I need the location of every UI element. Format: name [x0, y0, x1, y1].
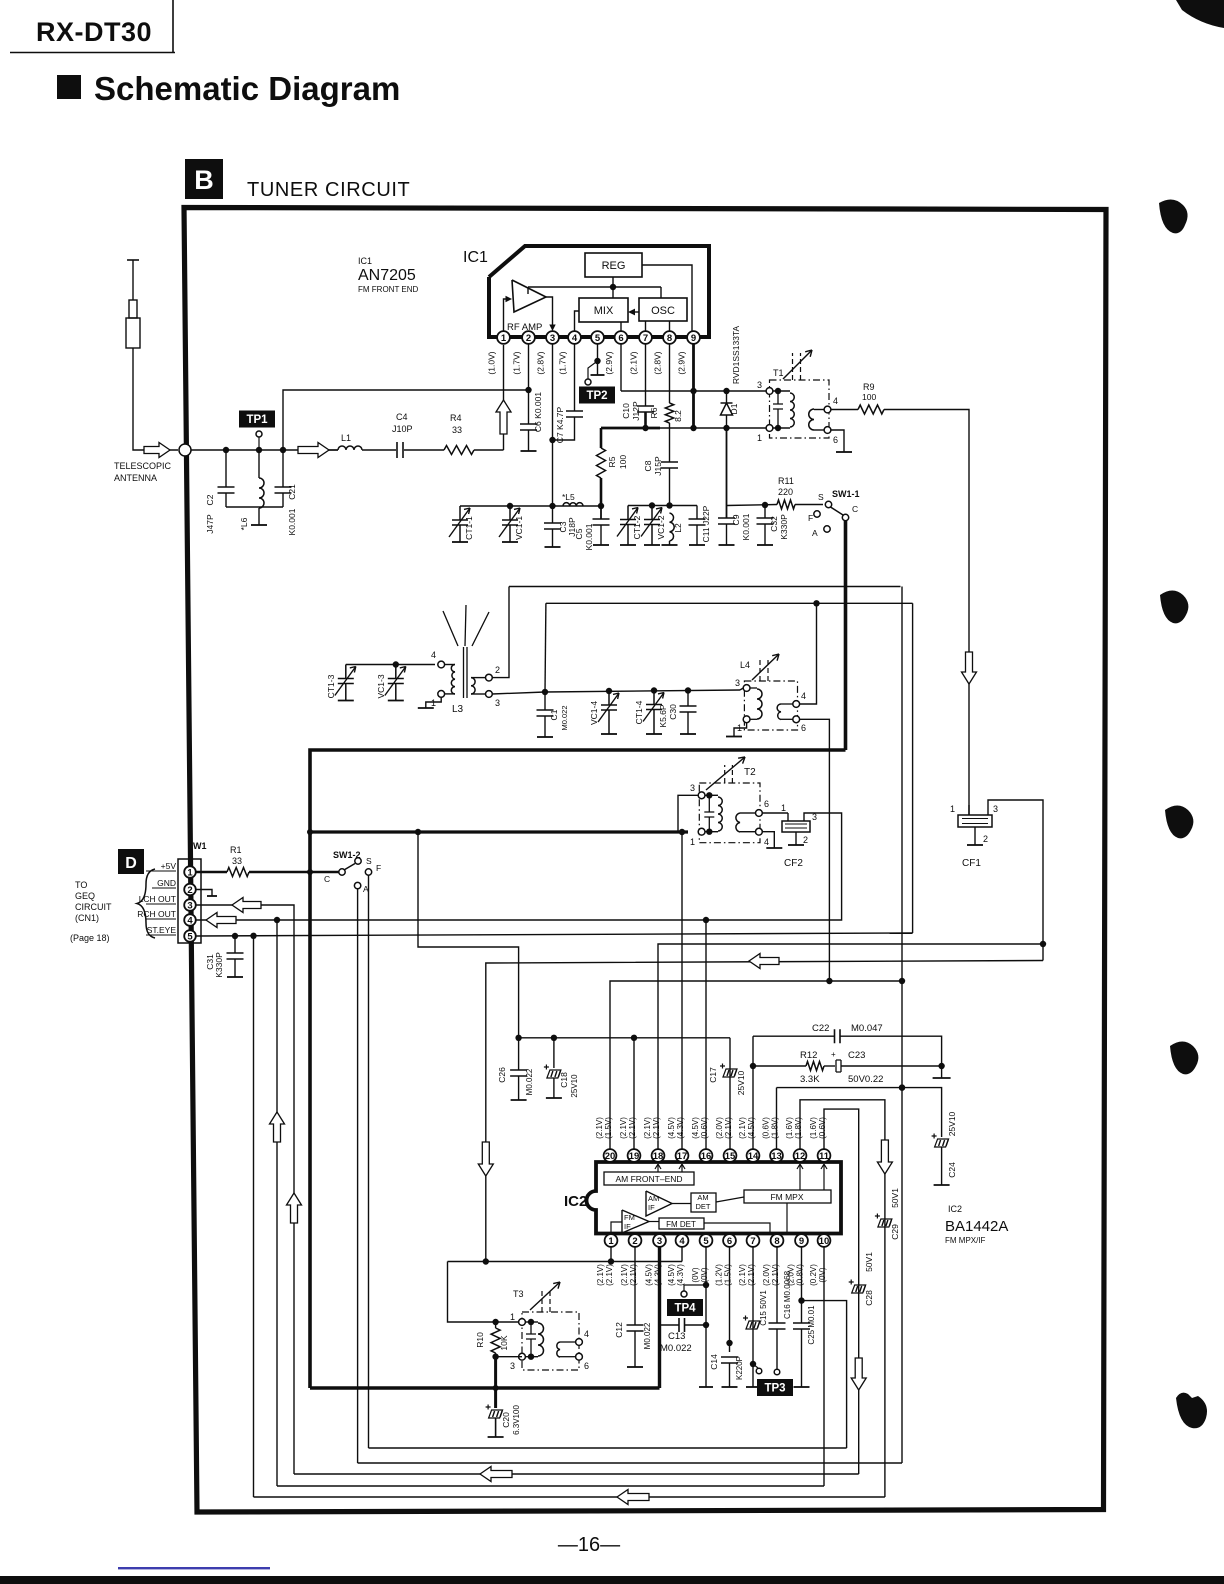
- svg-text:(1.6V): (1.6V): [809, 1117, 818, 1139]
- T3 pin 6: [576, 1353, 583, 1360]
- svg-text:(2.1V): (2.1V): [738, 1264, 747, 1286]
- wire R9 to CF1: [884, 410, 969, 816]
- svg-text:D1: D1: [729, 403, 739, 414]
- svg-text:M0.022: M0.022: [525, 1068, 534, 1095]
- thick ground bus bottom: [310, 1386, 660, 1389]
- wire pin20 riser: [610, 981, 902, 1149]
- svg-text:AM: AM: [697, 1193, 708, 1202]
- svg-text:CT1-3: CT1-3: [326, 674, 336, 698]
- wire CT1-3 row: [346, 664, 435, 666]
- svg-text:C7 K4.7P: C7 K4.7P: [555, 406, 565, 443]
- svg-text:20: 20: [605, 1151, 616, 1162]
- svg-text:AM: AM: [648, 1194, 659, 1203]
- capacitor C22 M0.047: [753, 1035, 834, 1037]
- wire pin 8 to R6: [669, 344, 671, 403]
- svg-text:(4.5V): (4.5V): [667, 1117, 676, 1139]
- svg-text:CT1-1: CT1-1: [464, 516, 474, 540]
- svg-text:3: 3: [812, 812, 817, 822]
- svg-text:L1: L1: [341, 433, 351, 443]
- L4 pin 3: [743, 685, 750, 692]
- svg-text:1: 1: [501, 333, 507, 344]
- svg-text:TELESCOPIC: TELESCOPIC: [114, 461, 172, 471]
- svg-text:(2.1V): (2.1V): [643, 1117, 652, 1139]
- svg-text:LCH OUT: LCH OUT: [139, 894, 176, 904]
- binding hole mark 2: [1160, 591, 1188, 624]
- svg-text:J47P: J47P: [205, 514, 215, 534]
- svg-text:J10P: J10P: [392, 424, 413, 434]
- svg-text:25V10: 25V10: [947, 1111, 957, 1136]
- REG box: [585, 253, 642, 277]
- svg-text:5: 5: [595, 333, 601, 344]
- svg-text:(0V): (0V): [700, 1267, 709, 1282]
- svg-text:6.3V100: 6.3V100: [512, 1405, 521, 1435]
- capacitor C1 M0.022: [544, 692, 546, 710]
- wire IF input line to IC2 pin 1: [448, 1261, 683, 1263]
- capacitor C3 J18P: [552, 506, 554, 523]
- svg-text:GND: GND: [157, 878, 176, 888]
- T1 secondary coil: [809, 409, 814, 430]
- svg-text:(2.1V): (2.1V): [747, 1264, 756, 1286]
- svg-text:3: 3: [510, 1361, 515, 1371]
- capacitor C21 K0.001: [282, 450, 284, 487]
- svg-text:TP1: TP1: [246, 414, 268, 426]
- svg-text:C15 50V1: C15 50V1: [759, 1290, 768, 1326]
- test point TP3: [750, 1361, 756, 1367]
- svg-text:CT1-2: CT1-2: [632, 515, 642, 539]
- svg-text:F: F: [376, 863, 381, 873]
- svg-text:220: 220: [778, 487, 793, 497]
- wire pin 1 to RF amp input: [504, 299, 509, 331]
- svg-text:C1: C1: [549, 709, 559, 720]
- FM DET box: [659, 1218, 704, 1229]
- svg-text:6: 6: [764, 799, 769, 809]
- svg-text:VC1-4: VC1-4: [589, 701, 599, 725]
- svg-text:6: 6: [833, 435, 838, 445]
- svg-text:C11 J22P: C11 J22P: [701, 505, 711, 542]
- line pin13 to C24: [777, 1088, 942, 1137]
- svg-text:Schematic Diagram: Schematic Diagram: [94, 70, 400, 107]
- svg-text:C23: C23: [848, 1050, 865, 1061]
- AM long vertical: [901, 587, 903, 1464]
- svg-text:CT1-4: CT1-4: [634, 700, 644, 724]
- wire D5 ST.EYE line: [196, 933, 913, 936]
- svg-text:1: 1: [950, 804, 955, 814]
- T2 pin 1: [698, 828, 705, 835]
- svg-text:2: 2: [632, 1236, 637, 1247]
- L4 pin 4: [793, 701, 800, 708]
- svg-text:T1: T1: [773, 368, 784, 378]
- svg-text:C14: C14: [709, 1354, 719, 1370]
- IC2 bottom pins 1-10: [605, 1234, 618, 1247]
- wire T1 pin6 to ground: [831, 430, 844, 452]
- svg-text:(2.1V): (2.1V): [629, 351, 639, 374]
- capacitor C6 K0.001: [520, 424, 537, 430]
- svg-text:2: 2: [187, 885, 192, 896]
- svg-text:4: 4: [679, 1236, 685, 1247]
- svg-text:(2.0V): (2.0V): [715, 1117, 724, 1139]
- capacitor C26 M0.022: [518, 1038, 520, 1070]
- svg-text:K0.001: K0.001: [584, 523, 594, 550]
- T2 pin 6: [756, 810, 763, 817]
- main schematic border: [184, 208, 1106, 1513]
- svg-text:(2.1V): (2.1V): [619, 1117, 628, 1139]
- svg-text:(2.1V): (2.1V): [595, 1117, 604, 1139]
- variable capacitor VC1-2: [641, 506, 662, 546]
- capacitor C24 25V10 electrolytic: [935, 1139, 949, 1147]
- T2 pin 4: [756, 828, 763, 835]
- wire L3 pin1 to ground: [426, 697, 441, 708]
- T3 secondary coil: [557, 1342, 560, 1357]
- arrow OSC to MIX: [630, 311, 639, 313]
- svg-text:4: 4: [572, 333, 578, 344]
- svg-text:R11: R11: [778, 476, 794, 486]
- wire C26 riser to T2 bus: [418, 832, 519, 1038]
- svg-text:(2.1V): (2.1V): [652, 1117, 661, 1139]
- svg-text:L2: L2: [673, 523, 683, 533]
- T1 primary coil: [770, 390, 791, 392]
- svg-text:4: 4: [833, 396, 838, 406]
- return line 3: [294, 1473, 859, 1475]
- svg-text:M0.047: M0.047: [851, 1023, 883, 1034]
- AM IF triangle: [646, 1191, 672, 1216]
- wire pin7 to C15: [752, 1247, 754, 1387]
- svg-text:(2.9V): (2.9V): [677, 351, 687, 374]
- svg-text:4: 4: [801, 691, 806, 701]
- svg-text:R6: R6: [649, 407, 659, 418]
- inductor L1: [329, 449, 338, 451]
- svg-text:100: 100: [862, 392, 876, 402]
- test point TP2: [579, 387, 615, 404]
- wire internal supply rail: [528, 286, 661, 288]
- svg-text:C13: C13: [668, 1331, 685, 1342]
- svg-text:C25 M0.01: C25 M0.01: [807, 1305, 816, 1345]
- svg-text:(Page 18): (Page 18): [70, 933, 110, 943]
- arrow down on feedback drop: [478, 1142, 493, 1176]
- resistor R11 220: [777, 500, 795, 509]
- capacitor C25 M0.01: [793, 1323, 810, 1329]
- svg-text:R9: R9: [863, 382, 875, 392]
- capacitor C30 K5.6P: [687, 691, 689, 707]
- antenna junction node: [179, 444, 191, 456]
- telescopic antenna: [127, 259, 139, 261]
- svg-text:4: 4: [187, 915, 193, 926]
- svg-text:ANTENNA: ANTENNA: [114, 473, 157, 483]
- inductor L2: [670, 513, 675, 541]
- connector W1 box: [178, 859, 201, 943]
- svg-text:C16 M0.0068: C16 M0.0068: [783, 1270, 792, 1319]
- svg-text:S: S: [818, 492, 824, 502]
- svg-text:(2.1V): (2.1V): [620, 1264, 629, 1286]
- capacitor C16 M0.0068: [769, 1323, 786, 1329]
- connector D pin 5: [184, 930, 196, 942]
- wire SW1-1 C contact down thick: [844, 521, 848, 750]
- transformer T2 dashed box: [699, 783, 760, 843]
- svg-text:C24: C24: [947, 1162, 957, 1178]
- T3 primary coil: [525, 1321, 538, 1323]
- svg-text:FM FRONT END: FM FRONT END: [358, 285, 419, 294]
- svg-text:CF1: CF1: [962, 858, 981, 869]
- wire pin10 drop: [823, 1247, 825, 1486]
- wire pin18 riser: [658, 944, 1043, 1149]
- wire RF amp out to pin 3: [546, 297, 553, 326]
- row wire C9 to R11: [727, 505, 778, 506]
- arrow down to CF1: [962, 652, 977, 684]
- svg-text:3: 3: [757, 380, 762, 390]
- svg-text:AM FRONT–END: AM FRONT–END: [615, 1174, 682, 1184]
- T1 tuning arrow: [793, 353, 801, 380]
- svg-text:(0.8V): (0.8V): [796, 1264, 805, 1286]
- svg-text:TUNER CIRCUIT: TUNER CIRCUIT: [247, 179, 410, 201]
- svg-text:4: 4: [764, 837, 769, 847]
- row wire CT1-2 to C11: [628, 505, 697, 507]
- svg-text:11: 11: [819, 1151, 830, 1162]
- binding hole mark 3: [1165, 806, 1193, 839]
- wire pin 2 to C6: [528, 344, 530, 424]
- svg-text:6: 6: [618, 333, 623, 344]
- svg-text:C9: C9: [731, 514, 741, 525]
- wire OSC to pin 8: [669, 321, 671, 331]
- return line 1: [369, 1447, 847, 1449]
- svg-text:5: 5: [187, 931, 193, 942]
- svg-text:(4.3V): (4.3V): [676, 1117, 685, 1139]
- CF1 pin2 ground: [974, 827, 976, 845]
- FM MPX box: [744, 1190, 831, 1203]
- svg-text:C21: C21: [287, 484, 297, 500]
- svg-text:3: 3: [550, 333, 555, 344]
- wire ST.EYE riser at right: [912, 603, 914, 933]
- IC2 BA1442A outline: [587, 1162, 842, 1234]
- svg-text:25V10: 25V10: [570, 1074, 579, 1098]
- svg-text:(2.9V): (2.9V): [604, 351, 614, 374]
- transformer T1 dashed box: [770, 380, 830, 438]
- rail R5 to T1 pin1 y428: [601, 427, 660, 430]
- inductor L6: [258, 450, 260, 478]
- capacitor C28 50V1 electrolytic: [852, 1285, 866, 1293]
- RF AMP triangle: [512, 280, 546, 312]
- svg-text:8: 8: [774, 1236, 779, 1247]
- wire CF1 long feedback to IC2 area: [486, 961, 1043, 1262]
- svg-text:RVD1SS133TA: RVD1SS133TA: [731, 326, 741, 385]
- capacitor C29 50V1 electrolytic: [878, 1219, 892, 1227]
- ceramic filter CF2: [762, 812, 788, 814]
- thick bus T2 feed: [310, 830, 688, 833]
- svg-text:C: C: [324, 874, 330, 884]
- svg-text:1: 1: [757, 433, 762, 443]
- svg-text:(1.5V): (1.5V): [724, 1264, 733, 1286]
- wire T3 pin3 to R10: [496, 1356, 522, 1358]
- svg-text:(1.5V): (1.5V): [604, 1117, 613, 1139]
- svg-text:A: A: [812, 528, 818, 538]
- svg-text:BA1442A: BA1442A: [945, 1218, 1008, 1235]
- wire pin 5 to TP2: [597, 344, 599, 375]
- T2 secondary coil: [736, 813, 740, 832]
- svg-text:MIX: MIX: [594, 305, 614, 317]
- svg-text:R12: R12: [800, 1050, 817, 1061]
- svg-text:K0.001: K0.001: [287, 508, 297, 535]
- svg-text:ST.EYE: ST.EYE: [147, 925, 177, 935]
- svg-text:—16—: —16—: [558, 1534, 620, 1556]
- wire +5V line with R1: [196, 871, 227, 874]
- arrow on return line 3: [480, 1467, 512, 1482]
- svg-text:IC1: IC1: [358, 256, 372, 266]
- wire pin19 riser: [633, 1038, 635, 1149]
- MIX box: [579, 298, 628, 322]
- wire MIX to pin 6: [620, 322, 622, 331]
- svg-text:1: 1: [781, 803, 786, 813]
- svg-text:8.2: 8.2: [673, 410, 683, 422]
- wire L4 pin1 ground: [734, 723, 747, 736]
- CF2 pin3 riser: [706, 813, 842, 920]
- svg-text:1: 1: [510, 1312, 515, 1322]
- svg-text:(2.1V): (2.1V): [724, 1117, 733, 1139]
- inductor L5: [563, 503, 583, 506]
- svg-text:VC1-2: VC1-2: [656, 515, 666, 539]
- capacitor C15 50V1 electrolytic: [746, 1321, 760, 1329]
- capacitor C17 25V10 electrolytic: [723, 1069, 737, 1077]
- wire pin 3 down: [552, 344, 554, 506]
- svg-text:C10: C10: [621, 403, 631, 419]
- svg-text:17: 17: [677, 1151, 688, 1162]
- T2 tuning arrow: [725, 765, 733, 783]
- wire TP1 node up to C6 rail: [283, 390, 529, 450]
- svg-text:3: 3: [495, 698, 500, 708]
- resistor R12 3.3K with C23: [753, 1065, 806, 1067]
- wire pin2 to C12: [634, 1247, 636, 1325]
- test point TP1: [239, 411, 275, 428]
- line C26 C18 C17 common: [519, 1037, 730, 1039]
- svg-text:(0.6V): (0.6V): [818, 1117, 827, 1139]
- svg-text:VC1-1: VC1-1: [514, 516, 524, 540]
- svg-text:33: 33: [232, 856, 242, 866]
- svg-text:C32: C32: [769, 516, 779, 532]
- rail IC1 output y391: [621, 390, 770, 392]
- return line 4: [277, 1485, 824, 1487]
- wire pin9 branch to bottom loop: [802, 1301, 847, 1448]
- capacitor C32 K330P: [764, 505, 766, 518]
- T1 pin 3: [766, 388, 773, 395]
- svg-text:(1.8V): (1.8V): [794, 1117, 803, 1139]
- svg-text:+5V: +5V: [161, 861, 177, 871]
- capacitor C8 J15P: [661, 462, 678, 468]
- T3 tuning arrow: [542, 1288, 550, 1312]
- trimmer capacitor CT1-2: [617, 506, 638, 546]
- T3 pin 4: [576, 1339, 583, 1346]
- wire CF1 pin3 riser: [988, 800, 1043, 961]
- svg-text:C28: C28: [864, 1290, 874, 1306]
- arrow on LCH line: [232, 898, 261, 913]
- wire antenna node to L1: [191, 449, 338, 451]
- svg-text:(2.8V): (2.8V): [536, 351, 546, 374]
- wire L4 pin3 from row: [740, 688, 743, 690]
- capacitor C10 J12P: [637, 406, 654, 412]
- svg-text:GEQ: GEQ: [75, 891, 95, 901]
- arrow on antenna wire: [298, 443, 329, 458]
- svg-text:2: 2: [495, 665, 500, 675]
- svg-text:C8: C8: [643, 460, 653, 471]
- wire pin8 to C16: [776, 1247, 778, 1323]
- arrow up on RCH drop: [270, 1112, 285, 1142]
- svg-text:B: B: [194, 165, 214, 195]
- svg-text:CF2: CF2: [784, 858, 803, 869]
- svg-text:(2.1V): (2.1V): [605, 1264, 614, 1286]
- T2 pin 3: [698, 792, 705, 799]
- binding hole mark 5: [1176, 1393, 1207, 1429]
- capacitor C13 M0.022: [660, 1324, 680, 1326]
- svg-text:33: 33: [452, 425, 462, 435]
- wire REG to MIX: [612, 277, 614, 298]
- svg-text:T2: T2: [744, 767, 756, 778]
- wire L4 pin4 riser: [800, 603, 817, 704]
- svg-text:M0.022: M0.022: [643, 1322, 652, 1349]
- L4 primary coil: [750, 687, 757, 689]
- svg-text:3: 3: [690, 783, 695, 793]
- svg-text:13: 13: [771, 1151, 782, 1162]
- row wire CT1-1 to R5: [460, 505, 601, 507]
- svg-text:C17: C17: [708, 1067, 718, 1083]
- svg-text:FM MPX: FM MPX: [770, 1192, 803, 1202]
- resistor R9 100: [831, 409, 858, 411]
- svg-text:1: 1: [608, 1236, 614, 1247]
- svg-text:IC1: IC1: [463, 249, 488, 266]
- svg-text:K330P: K330P: [779, 514, 789, 540]
- wire T2 pin3 loop: [678, 795, 698, 832]
- wire pin 7 to C10: [645, 344, 647, 406]
- svg-text:19: 19: [629, 1151, 640, 1162]
- T2 primary coil: [705, 794, 718, 796]
- arrow up to RF amp input: [496, 400, 511, 434]
- svg-text:3: 3: [657, 1236, 662, 1247]
- svg-text:DET: DET: [696, 1202, 711, 1211]
- svg-text:F: F: [808, 513, 813, 523]
- FM IF triangle: [622, 1210, 649, 1233]
- svg-text:+: +: [831, 1050, 836, 1059]
- resistor R4 33: [444, 446, 474, 455]
- svg-text:50V0.22: 50V0.22: [848, 1074, 883, 1085]
- trimmer capacitor CT1-3: [335, 665, 356, 701]
- svg-text:R1: R1: [230, 845, 242, 855]
- diode D1: [726, 391, 728, 403]
- wire pin12 riser: [800, 1100, 885, 1497]
- svg-text:1: 1: [431, 698, 436, 708]
- svg-text:6: 6: [801, 723, 806, 733]
- svg-text:IF: IF: [648, 1203, 655, 1212]
- svg-text:3: 3: [735, 678, 740, 688]
- svg-text:(2.0V): (2.0V): [762, 1264, 771, 1286]
- svg-text:AN7205: AN7205: [358, 267, 416, 284]
- svg-text:3.3K: 3.3K: [800, 1074, 820, 1085]
- capacitor C20 6.3V100 electrolytic: [489, 1410, 503, 1418]
- capacitor C11 J22P: [696, 506, 698, 520]
- wire pin4 to T3 loop: [681, 1247, 683, 1262]
- svg-text:3: 3: [993, 804, 998, 814]
- connector D pin 1: [184, 866, 196, 878]
- svg-text:M0.022: M0.022: [660, 1343, 692, 1354]
- trimmer capacitor CT1-1: [449, 506, 470, 542]
- wire D3 LCH line: [196, 905, 294, 1474]
- arrow on RCH line: [206, 913, 236, 928]
- variable capacitor VC1-1: [499, 506, 520, 542]
- svg-text:2: 2: [983, 834, 988, 844]
- svg-text:TP2: TP2: [586, 390, 607, 402]
- IC2 internal wires: [716, 1197, 744, 1202]
- svg-text:6: 6: [584, 1361, 589, 1371]
- wire R10 to C20 thick: [494, 1357, 497, 1408]
- L4 secondary coil: [777, 704, 781, 720]
- arrow on return line 5: [617, 1490, 649, 1505]
- svg-text:(0V): (0V): [691, 1267, 700, 1282]
- T1 pin 6: [824, 427, 831, 434]
- trimmer capacitor CT1-4: [643, 691, 664, 735]
